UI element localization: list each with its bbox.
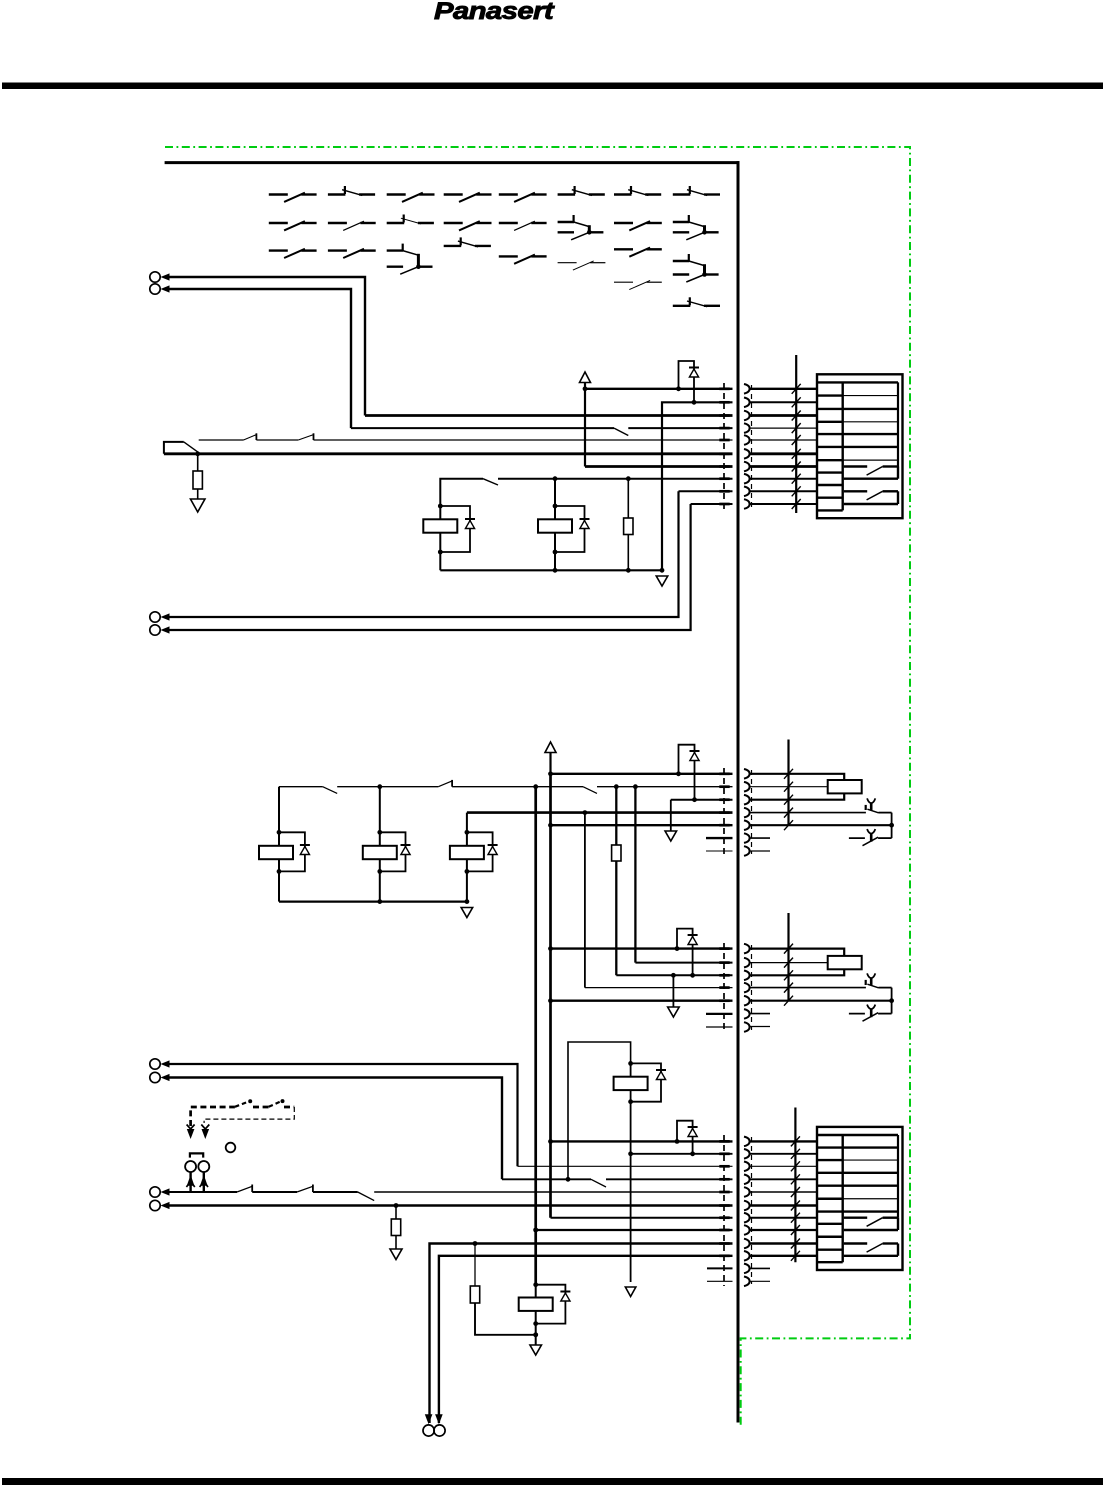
wire row3 g1 bbox=[365, 414, 733, 417]
terminal T2 bbox=[150, 284, 170, 294]
CN4 wires to relay block bbox=[750, 1141, 817, 1281]
terminal T1 bbox=[150, 272, 170, 282]
relay K6 feed bbox=[568, 1042, 631, 1179]
wire row3 g3 bbox=[518, 1165, 733, 1167]
relay K7 bbox=[519, 1282, 571, 1345]
relay block RY2 inner frame bbox=[818, 1135, 898, 1262]
CN1 connector sockets bbox=[744, 384, 750, 509]
ground G5 bbox=[530, 1345, 542, 1355]
wire row4 g2 bbox=[585, 987, 733, 989]
relay block RY1 outline bbox=[817, 374, 903, 518]
CR-A coil feed bbox=[750, 774, 844, 800]
diode D4 loop bbox=[677, 1121, 698, 1157]
switch SW6 common bbox=[164, 442, 200, 456]
relay block RY1 inner frame bbox=[818, 382, 898, 510]
resistor R2 bbox=[624, 479, 633, 571]
wire row4 g1 bbox=[351, 428, 733, 435]
terminal T7 bbox=[150, 1187, 170, 1197]
resistor R4 drop bbox=[470, 1244, 538, 1338]
switch S12 bbox=[328, 186, 375, 195]
diode D1 loop bbox=[679, 361, 700, 405]
bus wire V5 bbox=[634, 787, 636, 963]
wire row2 g3 bbox=[628, 1151, 732, 1156]
switch S28 bbox=[673, 215, 719, 240]
CN4 connector sockets bbox=[744, 1137, 750, 1287]
switch S18 bbox=[673, 186, 720, 195]
power arrow P2 bbox=[545, 742, 556, 774]
green dash-dot boundary bbox=[165, 147, 910, 1425]
switch S35 bbox=[499, 255, 547, 264]
wire row10 g3 bbox=[439, 1256, 733, 1423]
terminal T8 bbox=[150, 1200, 170, 1210]
ground G2 bbox=[665, 800, 677, 841]
wire rowC bbox=[671, 799, 733, 801]
switch S32 bbox=[328, 249, 376, 258]
switch S31 bbox=[269, 249, 317, 258]
relay K2 bbox=[538, 504, 590, 555]
CR-A contact CR2 bbox=[849, 829, 892, 846]
diode D3 loop bbox=[677, 929, 698, 978]
switch S37 bbox=[614, 248, 662, 257]
ground G3 bbox=[461, 908, 473, 918]
terminal T10 bbox=[434, 1414, 445, 1436]
CN2 shield wire with taps bbox=[784, 740, 793, 831]
ground G4 bbox=[668, 975, 680, 1017]
CN2 connector sockets bbox=[744, 769, 750, 856]
lamp LP2 bbox=[198, 1161, 209, 1172]
stub rows g3 bbox=[707, 1268, 733, 1281]
switch S26 bbox=[558, 215, 604, 240]
switch S23 bbox=[387, 215, 434, 224]
wire rowE bbox=[548, 823, 732, 828]
indicator circle bbox=[226, 1143, 236, 1153]
CN3 harness dashed line bbox=[719, 943, 751, 1032]
switch S25 bbox=[499, 221, 547, 230]
CN4 harness dashed line bbox=[719, 1135, 751, 1286]
relay K5 bbox=[450, 813, 498, 902]
switch S27 bbox=[614, 221, 662, 230]
relay K1 bbox=[423, 479, 555, 571]
bus wire V1 bbox=[533, 787, 538, 1285]
CN4 shield wire with taps bbox=[791, 1108, 800, 1263]
wire row2 g1 bbox=[662, 402, 733, 570]
CN3 connector sockets bbox=[744, 944, 750, 1032]
ground G1 bbox=[656, 576, 668, 586]
switch S17 bbox=[614, 186, 661, 195]
wire row7 g1 bbox=[585, 465, 733, 468]
wire row9 g1 bbox=[679, 490, 733, 492]
wire T1 to row3 bbox=[169, 277, 365, 416]
wire row4 g3 bbox=[502, 1177, 733, 1187]
interlock dashed switch bbox=[191, 1099, 295, 1126]
wire T6 to row4 g3 bbox=[169, 1078, 502, 1180]
terminal T9 bbox=[423, 1414, 434, 1436]
wire row10 g1 bbox=[691, 503, 733, 505]
terminal T4 bbox=[150, 625, 170, 635]
wire row6 g1 bbox=[164, 452, 733, 455]
switch S16 bbox=[558, 186, 605, 195]
wire row3 g2 bbox=[616, 973, 732, 978]
CR-B relay coil bbox=[750, 956, 862, 969]
switch S13 bbox=[387, 193, 435, 202]
wire rowA bbox=[548, 771, 732, 776]
CR-B contact CR2 bbox=[849, 1005, 892, 1022]
main vertical bus bbox=[737, 161, 740, 1422]
relay block RY2 terminal cells bbox=[818, 1148, 843, 1263]
CR-A wire r5 bbox=[750, 824, 892, 826]
relay bank2 common rail bbox=[279, 899, 469, 904]
wire rowB relay rail bbox=[279, 780, 733, 794]
switch S34 bbox=[444, 237, 491, 246]
terminal T5 bbox=[150, 1059, 170, 1069]
resistor R3 drop bbox=[390, 1206, 402, 1260]
relay block RY2 relay contacts bbox=[844, 1218, 898, 1256]
top supply wire bbox=[165, 161, 740, 164]
CR-B wire r5 bbox=[750, 1000, 892, 1002]
switch S15 bbox=[499, 193, 547, 202]
CN1 shield wire with taps bbox=[792, 355, 801, 513]
switch S38 bbox=[673, 254, 719, 282]
CN3 shield wire with taps bbox=[784, 913, 793, 1006]
lamp leads bbox=[186, 1172, 208, 1192]
switch S11 bbox=[269, 193, 317, 202]
switch S14 bbox=[444, 193, 492, 202]
CN1 harness dashed line bbox=[719, 383, 751, 509]
CR-A relay coil bbox=[750, 780, 862, 793]
switch S36 bbox=[558, 261, 606, 270]
wire T5 to row3 g3 bbox=[169, 1064, 518, 1166]
CN2 harness dashed line bbox=[719, 768, 751, 856]
wire T4 to row10 bbox=[169, 504, 691, 630]
CN1 wires to relay block bbox=[750, 389, 817, 504]
wire row6 g3 bbox=[169, 1203, 733, 1208]
resistor R1 drop bbox=[190, 454, 205, 512]
terminal T6 bbox=[150, 1072, 170, 1082]
wire row2 g2 bbox=[635, 962, 732, 964]
bottom rule bar bbox=[2, 1478, 1103, 1485]
switch S24 bbox=[444, 221, 492, 230]
stub rowF bbox=[706, 837, 733, 839]
relay K4 bbox=[363, 787, 411, 902]
top rule bar bbox=[2, 83, 1103, 90]
CR-B contact CR1 bbox=[750, 973, 894, 1013]
bus wire V4 bbox=[612, 787, 621, 976]
stub rowG bbox=[706, 850, 733, 852]
CR-A contact CR1 bbox=[750, 798, 894, 838]
switch S48 bbox=[673, 297, 720, 306]
wire rowD bbox=[467, 810, 733, 815]
terminal T3 bbox=[150, 612, 170, 622]
lamp bracket bbox=[190, 1153, 203, 1157]
relay K6 bbox=[614, 1061, 666, 1282]
wire row9 g3 bbox=[430, 1241, 733, 1423]
CR-A stub wires bbox=[750, 838, 770, 851]
arrow A3 bbox=[625, 1287, 636, 1297]
relay block RY1 contact lines bbox=[843, 396, 898, 461]
wire row5 g2 bbox=[551, 1000, 733, 1002]
relay block RY1 terminal cells bbox=[818, 396, 843, 511]
interlock arrows bbox=[187, 1125, 210, 1140]
switch S47 bbox=[614, 280, 662, 289]
wire row1 g1 bbox=[583, 386, 733, 391]
CR-B stub wires bbox=[750, 1014, 770, 1027]
switch S21 bbox=[269, 221, 317, 230]
wire row8 g1 relay rail bbox=[440, 476, 732, 570]
relay block RY2 contact lines bbox=[843, 1148, 898, 1212]
relay K3 bbox=[259, 787, 310, 902]
relay block RY2 outline bbox=[817, 1127, 903, 1270]
lamp LP1 bbox=[185, 1161, 196, 1172]
bus wire V2 bbox=[548, 774, 553, 1218]
wire T3 to row9 bbox=[169, 491, 679, 617]
wire row1 g2 bbox=[551, 946, 733, 951]
switch S33 bbox=[387, 244, 433, 275]
svg-text:Panasert: Panasert bbox=[434, 0, 555, 25]
diode D2 loop bbox=[679, 745, 700, 802]
relay bank1 common rail bbox=[440, 568, 664, 573]
wire row1 g3 bbox=[551, 1139, 733, 1144]
power arrow P1 bbox=[580, 372, 591, 467]
wire row5 g1 bbox=[199, 433, 733, 440]
switch S22 bbox=[328, 221, 376, 230]
wire row8 g3 bbox=[533, 1228, 732, 1233]
Panasert logo bbox=[434, 0, 555, 25]
stub rows g2 bbox=[706, 1014, 733, 1027]
relay block RY1 relay contacts bbox=[844, 467, 898, 505]
wire row7 g3 bbox=[551, 1217, 733, 1219]
bus wire V3 bbox=[584, 813, 586, 988]
CR-B coil feed bbox=[750, 949, 844, 976]
wire T2 to row4 bbox=[169, 289, 351, 428]
wire row5 g3 bbox=[169, 1185, 733, 1201]
